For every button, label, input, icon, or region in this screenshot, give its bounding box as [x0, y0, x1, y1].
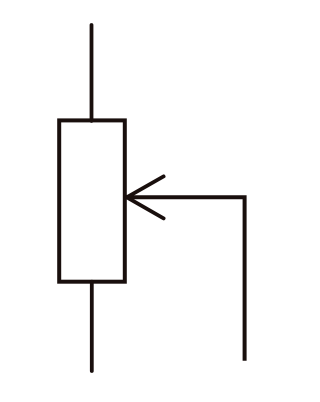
- wiper arrowhead lower barb: [127, 197, 164, 218]
- wire: wiper shaft horizontal then down (right lead): [128, 197, 245, 360]
- wiper arrowhead upper barb: [127, 176, 164, 197]
- resistor body (potentiometer element): [59, 120, 125, 281]
- wire: top lead of potentiometer: [90, 25, 94, 121]
- wire: bottom lead of potentiometer: [90, 282, 94, 371]
